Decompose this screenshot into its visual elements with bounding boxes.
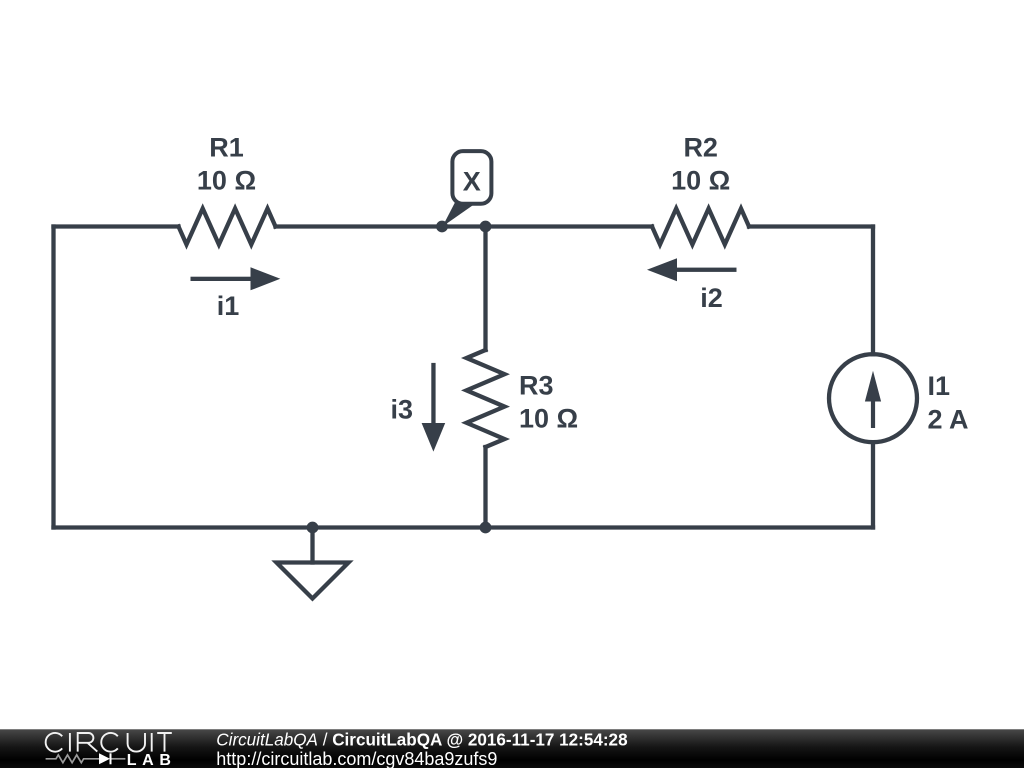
svg-text:10 Ω: 10 Ω <box>671 166 730 196</box>
current arrow i1 <box>191 267 281 290</box>
wire R3 branch upper <box>483 227 487 351</box>
svg-text:i2: i2 <box>700 283 723 313</box>
svg-text:I1: I1 <box>928 371 951 401</box>
logo CIRCUIT letters <box>46 733 172 752</box>
wire right rail upper <box>871 227 875 355</box>
resistor R2 <box>652 209 749 245</box>
wire bottom rail <box>54 525 874 529</box>
junction dot node X <box>436 221 448 233</box>
svg-text:i1: i1 <box>217 291 240 321</box>
svg-text:R3: R3 <box>519 371 554 401</box>
svg-text:10 Ω: 10 Ω <box>197 166 256 196</box>
wire from R1 to node X <box>276 224 486 228</box>
node X flag box <box>452 151 491 204</box>
resistor R1 <box>179 209 276 245</box>
ground stub wire <box>310 528 314 563</box>
logo diode cathode bar <box>110 753 112 764</box>
ground symbol triangle <box>277 563 349 599</box>
wire R3 branch lower <box>483 447 487 528</box>
junction dot ground <box>307 522 319 534</box>
wire top-left from left rail to R1 <box>54 224 179 228</box>
current arrow i3 <box>422 363 446 452</box>
svg-text:R1: R1 <box>209 133 244 163</box>
svg-text:R2: R2 <box>683 133 718 163</box>
footer bar <box>0 729 1024 768</box>
wire right rail lower <box>871 442 875 527</box>
wire left rail <box>51 227 55 528</box>
svg-text:10 Ω: 10 Ω <box>519 404 578 434</box>
resistor R3 <box>467 350 505 447</box>
wire from R2 to right rail corner <box>749 224 873 228</box>
current arrow i2 <box>647 258 737 281</box>
svg-text:LAB: LAB <box>127 752 177 768</box>
node X flag pointer <box>443 200 476 227</box>
current source I1 circle <box>829 354 917 442</box>
logo resistor-diode glyph <box>46 755 126 763</box>
logo diode triangle <box>99 753 110 764</box>
svg-text:CircuitLabQA / CircuitLabQA @: CircuitLabQA / CircuitLabQA @ 2016-11-17… <box>216 731 627 750</box>
svg-text:i3: i3 <box>391 395 414 425</box>
svg-text:http://circuitlab.com/cgv84ba9: http://circuitlab.com/cgv84ba9zufs9 <box>216 749 497 768</box>
current source I1 arrow <box>865 371 881 428</box>
svg-text:X: X <box>463 167 481 197</box>
wire from node to R2 <box>486 224 653 228</box>
junction dot R3 top <box>480 221 492 233</box>
svg-text:2 A: 2 A <box>928 405 969 435</box>
junction dot R3 bottom <box>480 522 492 534</box>
